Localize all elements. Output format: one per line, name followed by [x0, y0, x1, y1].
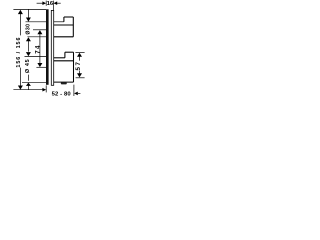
16 dim: left tail + ticks [37, 2, 44, 4]
bottom dim line y89.7 (156 bottom ref + 52-80 left tail) [13, 89, 45, 91]
wall (solid) [46, 9, 49, 85]
52-80 left-pointing arrow at knob front ext [74, 92, 78, 96]
52-80 right-pointing arrow at wall [42, 88, 46, 92]
ext line knob bottom y36.8 left part [27, 36, 46, 38]
156 top arrow up [18, 10, 23, 14]
57 dim ext lines right [75, 51, 84, 53]
dim line 156 col x20.4 upper [19, 14, 21, 35]
wing-bottom line y21.8 right part (under plate to wing) [51, 21, 64, 23]
ext line y56.4 (bottom knob upper ref) [25, 55, 47, 57]
right edge [73, 52, 75, 82]
safety button (filled) [61, 82, 67, 84]
52-80 left vertical ext [45, 85, 47, 92]
wing left edge [63, 17, 65, 22]
dim line 156 col x20.4 lower [19, 68, 21, 87]
ext line wing-bottom y21.8 left part [26, 21, 47, 23]
col x28.4: down arrow tip y21.5 [26, 18, 31, 22]
neck top y57.8 [51, 57, 65, 59]
cylinder top y60.8 [54, 60, 74, 62]
dim line col x39.9 (74) [39, 33, 41, 64]
16 dim left-pointing arrow [54, 1, 58, 5]
arrows (filled) [18, 1, 82, 95]
bottom y36.8 [51, 36, 73, 38]
col x79.5: down arrow tip y77.4 [77, 73, 82, 77]
ext line bottom knob bottom y82.3 left part [22, 81, 46, 83]
top knob [51, 17, 73, 37]
dim line col x79.5 (57) segs [79, 56, 81, 61]
ext line top knob axis y29.8 [33, 29, 46, 31]
svg-text:Ø30: Ø30 [26, 24, 32, 35]
col x39.9: down arrow tip y67.1 [37, 63, 42, 67]
wing top y17 [64, 16, 73, 18]
svg-text:Ø 45: Ø 45 [25, 59, 31, 74]
escutcheon plate (white fill covers lines behind) [51, 10, 53, 85]
col x28.4: up arrow tip y37.9 [26, 37, 31, 41]
svg-text:156 / 156: 156 / 156 [16, 37, 22, 68]
top extension line (wall top, extended left) [13, 8, 46, 10]
16 dim right-pointing arrow [42, 1, 46, 5]
col x79.5: up arrow tip y53 [77, 53, 82, 57]
dim line col x28.4 segs [27, 9, 29, 19]
svg-text:52 - 80: 52 - 80 [52, 91, 72, 97]
ext line bottom knob axis y67.3 [36, 66, 46, 68]
svg-text:57: 57 [75, 60, 82, 70]
156 bottom arrow down [18, 86, 23, 90]
wing left edge [64, 52, 66, 58]
right edge [72, 17, 74, 37]
svg-text:16: 16 [47, 1, 54, 7]
technical dimension drawing: concealed thermostat side view [0, 0, 100, 100]
col x28.4: up arrow tip y82.9 [26, 83, 31, 86]
bottom knob [51, 52, 73, 84]
cylinder top y25 [54, 24, 74, 26]
wing top y52.2 [65, 51, 74, 53]
52-80 right: ext line + tail [73, 85, 75, 96]
col x39.9: up arrow tip y30.1 [37, 30, 42, 34]
svg-text:74: 74 [35, 44, 42, 53]
col x28.4: down arrow tip y55.9 [26, 52, 31, 56]
bottom y82.1 [51, 81, 73, 83]
labels [16, 1, 82, 98]
